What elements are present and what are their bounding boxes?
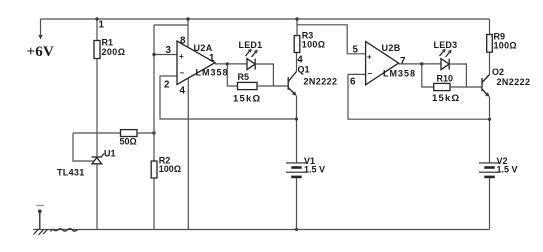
- svg-text:6: 6: [350, 77, 356, 88]
- svg-text:2: 2: [164, 80, 170, 91]
- svg-text:LED3: LED3: [434, 40, 458, 50]
- svg-text:15kΩ: 15kΩ: [233, 94, 261, 105]
- svg-text:5: 5: [353, 45, 359, 56]
- svg-text:LM358: LM358: [383, 69, 416, 79]
- svg-text:O2: O2: [492, 67, 504, 77]
- svg-text:8: 8: [180, 36, 186, 47]
- svg-text:+6V: +6V: [27, 44, 54, 60]
- svg-text:R1: R1: [102, 38, 114, 48]
- svg-text:1: 1: [99, 20, 105, 31]
- svg-text:200Ω: 200Ω: [102, 47, 126, 57]
- svg-text:R5: R5: [238, 72, 250, 82]
- svg-text:+: +: [367, 53, 372, 62]
- svg-text:LM358: LM358: [196, 68, 229, 78]
- svg-text:R10: R10: [437, 74, 454, 84]
- svg-text:7: 7: [400, 56, 406, 67]
- svg-text:1.5 V: 1.5 V: [304, 165, 325, 175]
- svg-text:100Ω: 100Ω: [302, 40, 325, 50]
- svg-text:−: −: [180, 69, 185, 78]
- svg-text:TL431: TL431: [57, 168, 85, 178]
- svg-text:2N2222: 2N2222: [497, 77, 531, 87]
- svg-text:50Ω: 50Ω: [120, 137, 137, 147]
- svg-text:2N2222: 2N2222: [304, 77, 338, 87]
- svg-text:15kΩ: 15kΩ: [432, 93, 460, 104]
- svg-text:1.5 V: 1.5 V: [497, 165, 518, 175]
- svg-text:U2B: U2B: [382, 43, 401, 53]
- svg-text:1: 1: [209, 53, 215, 64]
- svg-text:4: 4: [297, 55, 303, 66]
- svg-text:100Ω: 100Ω: [494, 41, 517, 51]
- svg-text:3: 3: [166, 45, 172, 56]
- svg-text:100Ω: 100Ω: [159, 164, 181, 174]
- svg-text:+: +: [179, 52, 184, 61]
- svg-text:U1: U1: [104, 149, 116, 159]
- svg-text:Q1: Q1: [298, 65, 310, 75]
- svg-text:4: 4: [180, 86, 186, 97]
- svg-text:U2A: U2A: [194, 43, 213, 53]
- svg-text:LED1: LED1: [239, 40, 263, 50]
- svg-text:−: −: [368, 69, 373, 78]
